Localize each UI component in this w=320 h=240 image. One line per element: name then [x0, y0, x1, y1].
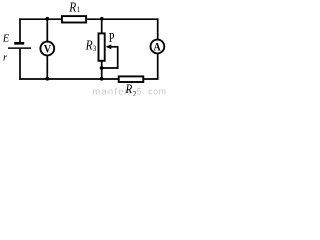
wire voltmeter branch: [46, 19, 48, 79]
svg-text:3: 3: [93, 44, 97, 54]
svg-text:1: 1: [77, 4, 81, 14]
wire wiper vertical: [117, 47, 119, 68]
svg-text:R: R: [85, 38, 93, 53]
svg-text:R: R: [125, 81, 133, 96]
ammeter A: [151, 40, 165, 54]
resistor R2: [119, 76, 144, 82]
svg-text:A: A: [153, 41, 160, 54]
svg-text:P: P: [109, 30, 115, 46]
node dot wiper junction: [100, 66, 104, 70]
node dot bottom R3: [100, 77, 104, 81]
wire wiper return: [102, 67, 119, 69]
wire right: [157, 18, 159, 79]
voltmeter V: [40, 42, 54, 56]
node dot top voltmeter: [46, 17, 50, 21]
battery E r: [8, 43, 31, 48]
wire R3 branch: [101, 19, 103, 79]
resistor R1: [62, 16, 86, 22]
wire left lower: [19, 49, 21, 80]
svg-text:V: V: [44, 43, 51, 56]
svg-text:2: 2: [133, 89, 137, 96]
svg-text:E: E: [2, 34, 10, 45]
rheostat R3: [99, 33, 105, 60]
node dot bottom voltmeter: [45, 77, 49, 81]
wire bottom: [19, 78, 158, 80]
svg-text:5. com: 5. com: [137, 86, 167, 96]
wire top: [19, 18, 158, 20]
node dot top R3: [100, 17, 104, 21]
svg-text:R: R: [68, 0, 76, 15]
wiper arrow of R3: [106, 44, 119, 49]
wire left: [19, 18, 21, 42]
